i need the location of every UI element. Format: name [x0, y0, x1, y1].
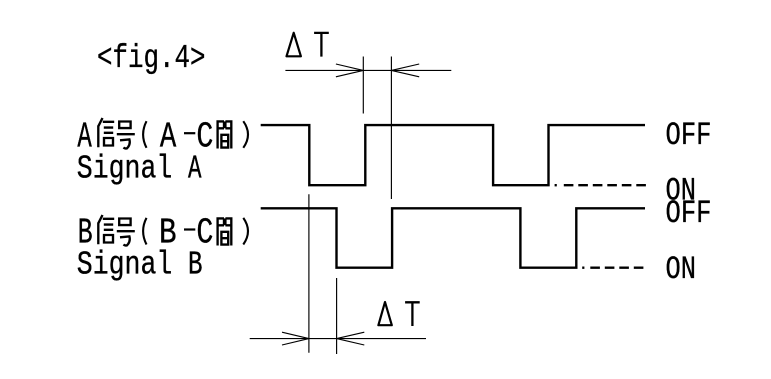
svg-text:ON: ON [666, 251, 697, 288]
top delta T label: T [314, 33, 329, 57]
signal B ON dashed line [590, 267, 643, 269]
bottom dimension line [250, 338, 426, 340]
kanji 信 (line A) [98, 118, 114, 147]
top delta T label: delta triangle [287, 33, 301, 57]
bottom dimension arrow right [337, 332, 365, 345]
waveform signal B [261, 208, 645, 267]
kanji 号 (line A) [117, 122, 135, 149]
bottom dimension arrow left [282, 332, 309, 345]
label B: (B-C part [143, 218, 146, 245]
label B: closing paren [243, 218, 248, 245]
svg-text:OFF: OFF [666, 117, 712, 154]
signal A ON dashed line [564, 184, 646, 186]
bottom delta T label: T [405, 302, 420, 326]
top extension line left (at signal A rising edge) [362, 57, 364, 114]
bottom extension line right (at signal B falling edge) [336, 278, 338, 354]
bottom extension line left (at signal A falling edge) [308, 194, 310, 352]
svg-text:Signal: Signal [77, 150, 173, 187]
waveform signal A [261, 125, 645, 185]
svg-text:OFF: OFF [666, 195, 712, 232]
top dimension arrow right [391, 64, 419, 77]
top dimension line [285, 69, 451, 71]
label A: (A-C part [143, 121, 146, 148]
svg-text:Signal: Signal [77, 247, 173, 284]
kanji 間 (line B) [218, 217, 232, 245]
signal B ON dashed line dot [582, 267, 584, 269]
svg-text:B: B [188, 247, 203, 284]
top dimension arrow left [336, 64, 363, 77]
kanji 号 (line B) [117, 219, 135, 246]
top extension line right (at signal B rising edge) [390, 57, 392, 200]
svg-text:A: A [188, 150, 202, 187]
bottom delta T label: delta triangle [378, 302, 391, 325]
label A: closing paren [243, 121, 248, 148]
kanji 信 (line B) [98, 215, 114, 244]
signal A ON dashed line dot [555, 184, 557, 186]
kanji 間 (line A) [218, 120, 232, 148]
svg-text:<fig.4>: <fig.4> [97, 40, 206, 77]
